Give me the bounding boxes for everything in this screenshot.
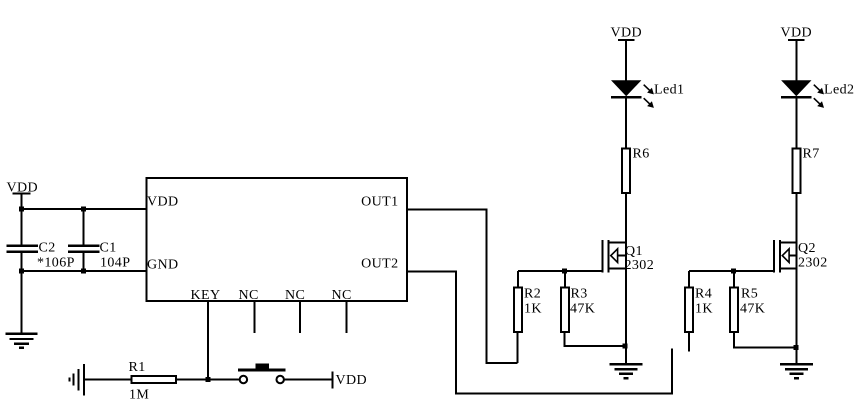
resistor R4 [685, 287, 713, 333]
wire R5 bottom to source [734, 333, 796, 348]
node R3 gate [562, 269, 567, 274]
wire NC stub 1 [253, 301, 255, 333]
ground Q2 [780, 364, 813, 378]
svg-text:2302: 2302 [625, 258, 655, 273]
wire Q2 source to ground [795, 348, 797, 364]
IC U1 body [147, 178, 408, 301]
wire R1 to KEY node [176, 379, 240, 381]
wire to ground left [21, 271, 23, 334]
wire R5 top lead [733, 271, 735, 287]
node R5 source [793, 345, 798, 350]
resistor R2 [514, 287, 542, 333]
power symbol VDD circuit 2 [781, 26, 813, 41]
LED Led2 [781, 80, 854, 108]
wire R3 bottom to source [564, 333, 626, 346]
capacitor C2 [7, 209, 75, 271]
svg-text:1K: 1K [695, 302, 713, 317]
svg-text:C1: C1 [100, 241, 117, 256]
svg-text:1K: 1K [524, 302, 542, 317]
wire LED1 to R6 [625, 99, 627, 149]
wire gate bus Q1 [518, 270, 603, 272]
ground left [6, 334, 38, 348]
wire R7 to Q2 drain [795, 193, 797, 348]
svg-text:OUT2: OUT2 [361, 257, 398, 272]
wire OUT1 to R2 bottom [407, 210, 517, 364]
ground sideways (R1 left) [69, 364, 84, 396]
power symbol VDD circuit 1 [611, 26, 643, 41]
wire R4 top lead [688, 271, 690, 287]
node KEY junction [205, 377, 210, 382]
node R3 source [622, 344, 627, 349]
svg-text:Led1: Led1 [654, 83, 684, 98]
wire OUT2 bus [407, 272, 672, 394]
node R5 gate [731, 269, 736, 274]
node GND-C1 [81, 269, 86, 274]
resistor R1 [129, 360, 177, 403]
svg-text:Led2: Led2 [824, 83, 854, 98]
switch S1 push button [238, 364, 285, 384]
svg-text:VDD: VDD [611, 26, 643, 41]
svg-text:2302: 2302 [798, 256, 828, 271]
transistor Q2 [774, 240, 828, 272]
svg-text:VDD: VDD [336, 373, 368, 388]
LED Led1 [611, 80, 684, 108]
svg-text:1M: 1M [129, 388, 149, 403]
node VDD-C2 [19, 207, 24, 212]
wire NC stub 3 [346, 301, 348, 333]
svg-text:47K: 47K [740, 302, 765, 317]
svg-text:KEY: KEY [191, 288, 221, 303]
power symbol VDD left [7, 181, 39, 210]
wire switch to VDD terminal [284, 379, 332, 381]
node GND-C2 [19, 269, 24, 274]
svg-text:NC: NC [332, 288, 352, 303]
resistor R3 [561, 287, 595, 333]
svg-text:VDD: VDD [781, 26, 813, 41]
wire R2 top lead [517, 271, 519, 287]
transistor Q1 [603, 240, 654, 273]
resistor R5 [730, 287, 765, 333]
wire NC stub 2 [299, 301, 301, 333]
node VDD-C1 [81, 207, 86, 212]
wire ground to R1 [84, 379, 132, 381]
wire KEY pin [207, 301, 209, 380]
svg-text:C2: C2 [39, 241, 56, 256]
wire Q1 source to ground [625, 346, 627, 364]
svg-text:NC: NC [239, 288, 259, 303]
svg-text:Q2: Q2 [798, 241, 816, 256]
wire R4 bottom stub [688, 333, 690, 352]
wire R6 to Q1 drain [625, 193, 627, 346]
resistor R6 [622, 147, 649, 193]
svg-text:47K: 47K [570, 302, 595, 317]
ground Q1 [610, 364, 643, 378]
wire GND rail bottom [22, 270, 147, 272]
capacitor C1 [68, 209, 130, 271]
wire gate bus Q2 [689, 270, 774, 272]
power symbol VDD at switch [332, 371, 367, 388]
svg-text:*106P: *106P [37, 256, 75, 271]
svg-text:R5: R5 [741, 287, 758, 302]
svg-text:R3: R3 [571, 287, 588, 302]
svg-text:104P: 104P [100, 256, 130, 271]
wire VDD to LED1 [625, 40, 627, 81]
svg-text:OUT1: OUT1 [361, 195, 398, 210]
svg-text:R6: R6 [633, 147, 650, 162]
wire LED2 to R7 [795, 99, 797, 149]
svg-text:R1: R1 [129, 360, 146, 375]
svg-text:Q1: Q1 [625, 244, 643, 259]
svg-text:R7: R7 [803, 147, 820, 162]
resistor R7 [792, 147, 819, 193]
svg-text:GND: GND [147, 258, 179, 273]
wire R3 top lead [564, 271, 566, 287]
svg-text:R2: R2 [524, 287, 541, 302]
svg-text:NC: NC [285, 288, 305, 303]
wire R2 bottom lead [516, 333, 518, 363]
svg-text:R4: R4 [695, 287, 712, 302]
wire VDD rail top [22, 208, 147, 210]
wire VDD to LED2 [795, 40, 797, 81]
svg-text:VDD: VDD [147, 195, 179, 210]
